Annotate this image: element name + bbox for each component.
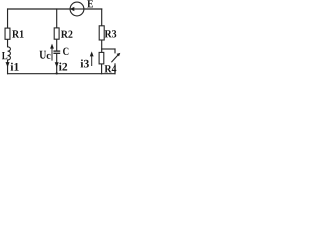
label i2 bbox=[59, 63, 67, 71]
current arrow i3 head bbox=[90, 51, 94, 56]
wire left branch R1-to-L bbox=[7, 39, 9, 47]
switch K blade bbox=[111, 55, 118, 63]
wire node-to-switch horizontal bbox=[102, 48, 115, 50]
label C bbox=[63, 48, 68, 55]
resistor R1 bbox=[5, 28, 10, 39]
label R2 bbox=[61, 31, 73, 38]
wire left branch L-to-bottom bbox=[7, 60, 9, 74]
EMF arrow shaft bbox=[73, 8, 84, 10]
resistor R2 bbox=[54, 28, 59, 39]
current arrowhead i1 bbox=[6, 62, 10, 67]
current arrowhead i2 bbox=[55, 62, 59, 67]
resistor R4 bbox=[99, 52, 104, 64]
wire middle branch top-to-R2 bbox=[56, 9, 58, 28]
label R1 bbox=[12, 30, 23, 37]
current arrow i3 shaft bbox=[91, 55, 93, 67]
wire bottom horizontal bbox=[8, 73, 115, 75]
switch blade arrowhead bbox=[117, 53, 121, 57]
wire switch upper contact bbox=[114, 49, 116, 53]
label c subscript of Uc bbox=[47, 54, 51, 59]
resistor R3 bbox=[99, 26, 104, 40]
capacitor C plates bbox=[53, 50, 60, 52]
wire middle branch C-to-bottom bbox=[56, 54, 58, 74]
label R3 bbox=[105, 30, 117, 37]
voltage arrow Uc head bbox=[50, 44, 54, 49]
wire right branch top-to-R3 bbox=[101, 9, 103, 26]
wire left branch top-to-R1 bbox=[7, 9, 9, 28]
EMF arrowhead bbox=[70, 7, 75, 11]
voltage arrow Uc shaft bbox=[51, 47, 53, 61]
label E bbox=[87, 0, 93, 7]
wire top horizontal bbox=[8, 8, 102, 10]
label R4 bbox=[105, 65, 117, 72]
label U of Uc bbox=[39, 51, 46, 59]
wire R4-to-bottom bbox=[101, 64, 103, 74]
label L bbox=[2, 52, 7, 59]
wire middle branch R2-to-C bbox=[56, 39, 58, 50]
wire switch lower contact bbox=[114, 64, 116, 74]
inductor L (3 arcs) bbox=[8, 47, 11, 60]
label i1 bbox=[11, 63, 19, 71]
wire right branch R3-to-node-to-R4 bbox=[101, 40, 103, 52]
label i3 bbox=[81, 59, 89, 67]
junction dot middle-bottom bbox=[56, 72, 58, 74]
EMF source E circle bbox=[70, 2, 84, 16]
